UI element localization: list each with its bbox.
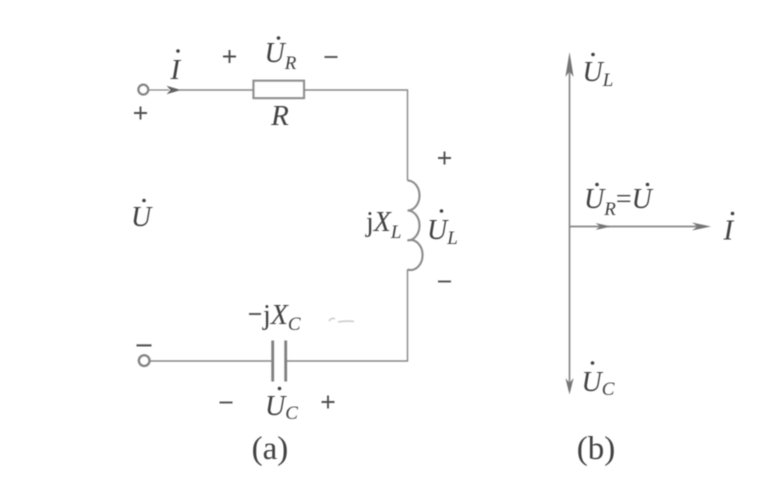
phasor I arrow (right): [570, 226, 703, 228]
svg-text:UC: UC: [265, 391, 298, 424]
label minus (UL): [438, 281, 451, 283]
wire (T1 to arrow): [149, 89, 170, 91]
capacitor -jXC: [273, 341, 286, 382]
phasor UR arrowhead (mid): [596, 223, 612, 230]
svg-text:I: I: [723, 215, 735, 247]
svg-text:UL: UL: [427, 215, 458, 249]
wire (resistor to top-right corner): [304, 90, 408, 181]
label plus (UC): [322, 396, 335, 409]
dot of UL (phasor): [591, 53, 595, 57]
label plus (T1): [134, 107, 147, 120]
label minus (UR): [325, 56, 338, 58]
minus of -jXC: [249, 313, 261, 315]
svg-text:I: I: [170, 54, 182, 86]
svg-text:U: U: [131, 202, 153, 233]
svg-text:(b): (b): [577, 431, 615, 467]
wire (capacitor to T2): [151, 360, 273, 362]
label minus (UC): [220, 402, 233, 404]
terminal T1 (top-left): [138, 85, 148, 95]
dot of U: [142, 199, 146, 203]
svg-text:jXC: jXC: [262, 300, 301, 335]
phasor UC arrowhead (down): [565, 378, 573, 395]
phasor UL arrowhead (up): [565, 52, 573, 77]
dot of I: [176, 49, 180, 53]
svg-text:UC: UC: [582, 367, 615, 400]
scan artifact (smudge): [329, 318, 354, 322]
inductor jXL: [408, 181, 423, 271]
svg-text:jXL: jXL: [365, 207, 401, 243]
svg-text:R: R: [270, 100, 289, 132]
dot of UC (phasor): [591, 361, 595, 365]
resistor R: [254, 81, 305, 98]
wire (inductor to bottom-right corner): [287, 270, 408, 362]
dot of I (phasor): [731, 212, 735, 216]
phasor I arrowhead: [692, 223, 711, 231]
label plus (UR): [223, 50, 236, 63]
dot of UC: [278, 387, 282, 391]
svg-text:UL: UL: [583, 57, 614, 91]
label plus (UL): [438, 152, 451, 165]
dot of U (phasor): [646, 183, 650, 187]
current arrow I: [167, 86, 182, 95]
phasor axis line (vertical): [569, 70, 571, 383]
dot of UL: [440, 209, 444, 213]
svg-text:(a): (a): [252, 431, 289, 467]
dot of UR: [277, 36, 281, 40]
dot of UR (phasor): [595, 183, 599, 187]
svg-text:UR: UR: [265, 38, 297, 74]
label minus (T2): [137, 344, 152, 346]
svg-text:UR=U: UR=U: [584, 184, 654, 220]
wire (arrow to resistor): [179, 89, 253, 91]
terminal T2 (bottom-left): [139, 355, 150, 366]
